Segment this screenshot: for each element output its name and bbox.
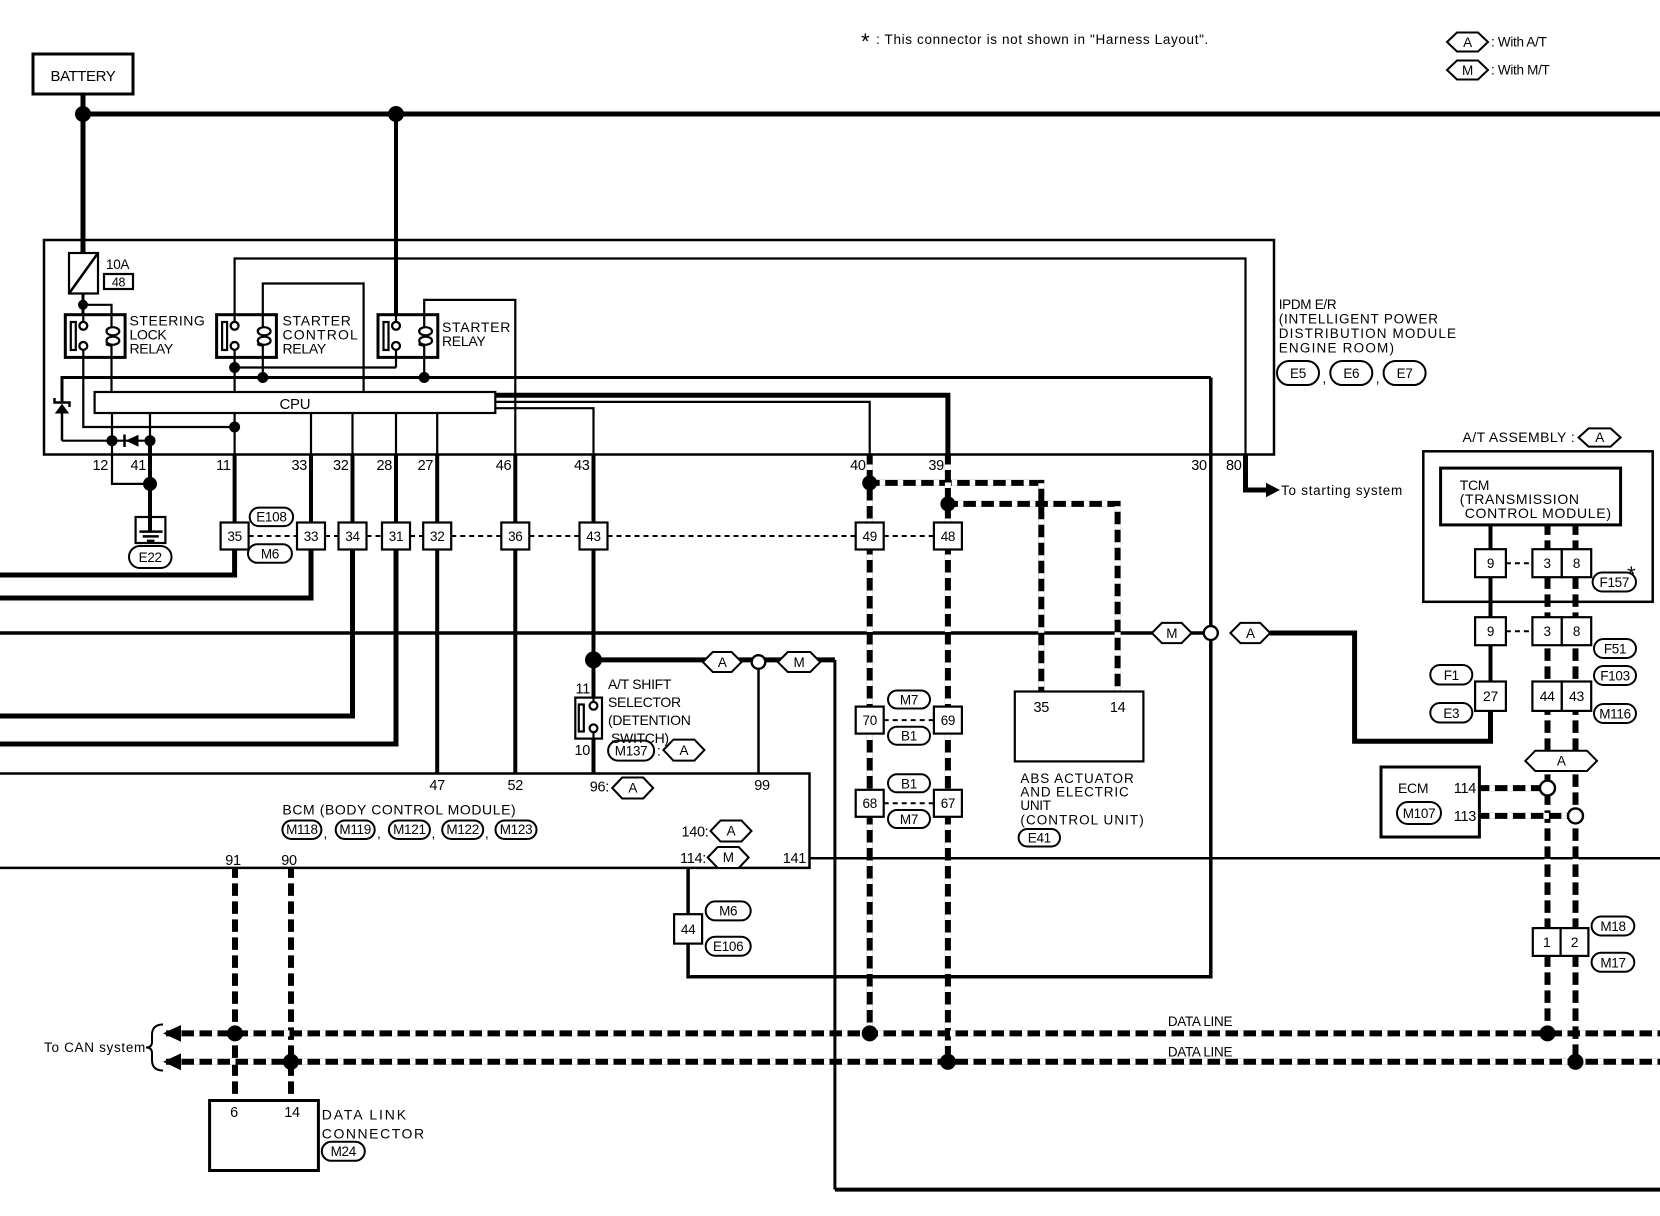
wire battery to fuse [81,94,86,253]
oval E5 [1277,361,1319,385]
junction dot pin 39 branch [940,496,955,511]
striped wire ECM pin 113 to joint [1479,813,1575,819]
steering lock relay [65,315,125,358]
hexagon A at BCM 140 [711,821,752,842]
junction dot battery 1 [75,106,91,122]
svg-text:SELECTOR: SELECTOR [608,694,681,710]
svg-text:*: * [1627,562,1636,587]
svg-text:M6: M6 [719,904,737,919]
wire IPDM pin 12 below box to ground node [112,455,150,484]
wire starter control relay contact bottom to CPU [234,350,236,392]
svg-text:M17: M17 [1600,955,1625,970]
svg-text:,: , [1323,371,1326,386]
svg-text:E22: E22 [139,550,162,565]
oval M24 [322,1142,365,1161]
svg-text:3: 3 [1543,556,1550,571]
svg-text:E3: E3 [1443,706,1459,721]
zener diode bottom wire to diode line [61,414,64,441]
wire CPU right output to IPDM pin 40 [495,402,869,455]
left bus wire from connector 33 [0,550,311,599]
svg-text:44: 44 [1540,688,1555,704]
wire IPDM pin 46 to connector 36 [513,455,517,523]
junction dot ground node [143,477,157,491]
CAN data line 2 striped [166,1059,1660,1065]
left bus wire from connector 34 [0,550,353,717]
A/T shift selector detention switch [575,698,602,739]
svg-text:M116: M116 [1599,707,1631,722]
diode between pin 12 and 41 nodes [125,435,139,448]
svg-text:,: , [432,826,435,841]
striped wire BCM pin 90 to data link connector pin 14 [288,868,294,1101]
svg-text:DATA LINE: DATA LINE [1168,1044,1233,1059]
wire fuse node to steering lock relay coil [83,305,112,327]
svg-text:M18: M18 [1600,919,1625,934]
svg-text:ENGINE ROOM): ENGINE ROOM) [1279,341,1394,356]
junction dot below fuse [78,300,88,310]
svg-text:RELAY: RELAY [283,341,327,357]
junction circle ECM 114 [1540,781,1555,796]
wire IPDM pin 33 to connector 33 [309,455,313,523]
wire steering lock relay contact bottom to pin 11 node [83,350,234,427]
svg-text:M137: M137 [615,744,648,759]
dashed links between connector row boxes [249,535,934,537]
svg-text:: With M/T: : With M/T [1491,63,1550,78]
svg-text:28: 28 [376,458,392,474]
thick A/T wire from hexagon A to connector 27 [1270,633,1491,741]
ground symbol E22 [136,517,166,543]
connector boxes 1 2 [1533,928,1561,956]
oval E22 [129,546,172,568]
oval M107 [1397,802,1441,824]
svg-text:27: 27 [418,458,434,474]
junction dot CAN2 BCM90 [283,1054,299,1070]
hexagon M on A/T M/T line [1152,623,1192,643]
wire relay output line to IPDM pin 30 with zener branch [62,378,1211,402]
svg-text:To starting system: To starting system [1281,483,1402,498]
hexagon A on A/T M/T line [1230,623,1270,643]
svg-text:M24: M24 [331,1144,357,1159]
M/T A/T branch line across page [0,631,1211,635]
svg-text:52: 52 [508,778,524,794]
IPDM E/R enclosure box [44,240,1274,455]
wire starter relay coil top to IPDM pin 46 [424,300,515,455]
svg-text:90: 90 [281,853,297,869]
oval M17 [1592,953,1635,972]
wire CPU pin to IPDM pin 32 [351,413,353,455]
ABS actuator and electric unit box [1015,692,1144,762]
oval F103 [1594,666,1636,685]
oval M7 top [888,691,930,709]
oval M18 [1592,917,1635,936]
hexagon A at BCM 96 [612,778,653,799]
junction dot CAN1 BCM91 [227,1025,243,1041]
svg-text:91: 91 [225,853,241,869]
striped wire IPDM pin 40 to CAN line 1 [867,455,873,1034]
svg-text:80: 80 [1226,458,1242,474]
svg-text:E108: E108 [256,510,286,525]
svg-text:M7: M7 [900,812,918,827]
oval F1 [1430,665,1472,685]
svg-text:48: 48 [112,276,126,290]
svg-text:M: M [1462,63,1473,78]
junction dot diode right [145,435,156,446]
oval F51 [1594,639,1636,658]
svg-text:E106: E106 [713,939,743,954]
svg-text:30: 30 [1191,458,1207,474]
ground wire stub inside ground box [148,517,152,532]
junction circle on detention branch [752,655,766,669]
svg-text:,: , [377,826,380,841]
wide hexagon A above ECM [1525,751,1597,771]
striped wire BCM pin 91 to data link connector pin 6 [232,868,238,1101]
striped wire IPDM pin 39 to CAN line 2 [945,455,951,1062]
wire starter control relay contact top to IPDM pin 80 [235,259,1246,455]
svg-text:10: 10 [574,743,590,759]
svg-text:IPDM E/R: IPDM E/R [1279,297,1337,312]
bottom wire to right edge [835,1188,1660,1192]
svg-text:F157: F157 [1600,575,1630,590]
TCM box [1441,468,1621,525]
junction dot CAN1 pin40 [862,1025,878,1041]
fuse 10A 48 [69,253,133,294]
svg-text:A: A [1557,754,1566,769]
svg-text:10A: 10A [106,257,129,272]
wire CPU right output to IPDM pin 43 [495,408,593,454]
svg-text:E5: E5 [1290,366,1306,381]
wire starter control relay coil top to CPU [263,284,364,393]
diode line pin12 to pin41 [62,440,150,442]
oval M116 [1594,704,1636,723]
wire CPU pin to IPDM pin 27 [436,413,438,455]
svg-text:: This connector is not shown: : This connector is not shown in "Harnes… [876,32,1208,47]
wire detention switch to BCM pin 96 [592,739,596,774]
hexagon M on detention branch [778,652,821,672]
striped branch pin 40 node to ABS pin 35 [870,483,1042,692]
wire connector 43 to detention switch node [592,550,596,698]
svg-text:M118: M118 [286,822,318,837]
wire battery bus down to starter relay contact [394,114,398,322]
svg-text:CONTROL MODULE): CONTROL MODULE) [1465,505,1611,521]
wire CPU pin to IPDM pin 28 [395,413,397,455]
zener diode in IPDM [55,398,70,414]
svg-text:11: 11 [576,682,591,698]
oval M137 [608,741,654,761]
BCM pin 141 wire to right edge [810,857,1660,860]
oval E6 [1330,361,1372,385]
CAN data line 1 striped [166,1030,1660,1036]
junction circle ECM 113 [1568,808,1583,823]
svg-text:32: 32 [333,458,349,474]
svg-text:F1: F1 [1444,668,1459,683]
svg-text:RELAY: RELAY [442,333,486,349]
svg-text:41: 41 [130,458,146,474]
wire junction circle to BCM pin 99 [757,662,760,774]
CAN line 1 arrow [163,1025,181,1042]
svg-text:12: 12 [92,458,108,474]
striped wire TCM pin 8 chain to CAN line 2 [1573,525,1579,1062]
wire IPDM pin 80 to starting system [1246,455,1268,491]
svg-text:M119: M119 [339,822,371,837]
wire IPDM pin 43 to connector 43 [592,455,596,523]
wire TCM pin 9 chain down through connectors [1489,525,1493,741]
svg-text:2: 2 [1571,934,1579,950]
svg-text:F51: F51 [1604,642,1626,657]
svg-text:BCM (BODY CONTROL MODULE): BCM (BODY CONTROL MODULE) [282,802,515,818]
junction dot diode left [107,435,118,446]
svg-text:114:: 114: [680,851,706,867]
svg-text:35: 35 [1034,700,1050,716]
svg-text:43: 43 [1569,688,1584,704]
svg-text:UNIT: UNIT [1020,798,1050,813]
svg-text:,: , [324,826,327,841]
svg-text:,: , [1376,371,1379,386]
oval M6 [248,544,292,563]
svg-text:M: M [794,655,805,670]
connector boxes 68 67 [856,790,884,817]
svg-text:33: 33 [291,458,307,474]
svg-text:(DETENTION: (DETENTION [608,712,691,728]
junction dot CAN1 TCM [1540,1025,1556,1041]
svg-text:M121: M121 [393,822,426,837]
svg-text:40: 40 [850,458,866,474]
battery B+ bus wire [83,112,1660,117]
wire CPU pin to IPDM pin 33 [310,413,312,455]
left bus wire from connector 35 [0,550,235,576]
connector boxes 27 44 43 [1475,682,1506,711]
junction dot detention branch [585,651,602,668]
wire CPU pin to IPDM pin 11 [234,413,236,455]
svg-text:49: 49 [862,529,876,544]
svg-text:A: A [1246,626,1255,641]
wire IPDM pin 27 to connector 32 [435,455,439,523]
svg-text:A: A [1595,430,1604,445]
svg-text:CONNECTOR: CONNECTOR [322,1126,424,1142]
junction circle on A/T M/T line [1204,626,1218,640]
arrow to starting system [1266,483,1280,497]
wire starter control relay coil bottom to relay output line [262,346,264,378]
data link connector box [210,1101,319,1171]
svg-text:33: 33 [304,529,318,544]
svg-text:RELAY: RELAY [130,341,174,357]
svg-text:14: 14 [284,1105,300,1121]
wire hexagon M line down to bottom edge [833,660,836,1190]
svg-text:39: 39 [928,458,944,474]
svg-text:A: A [1463,35,1472,50]
svg-text:A: A [680,743,689,758]
svg-text:E41: E41 [1028,831,1051,846]
svg-text:48: 48 [941,529,955,544]
svg-text:DATA LINK: DATA LINK [322,1107,407,1123]
svg-text:9: 9 [1487,624,1494,639]
redraw relay pin circles over stubs [79,322,400,350]
svg-text:67: 67 [941,796,955,811]
oval E3 [1430,703,1472,723]
connector boxes 49 48 [856,523,884,550]
wire CPU right output to IPDM pin 39 [495,395,948,454]
junction dot SCR coil node [257,372,268,383]
junction dot CAN2 TCM [1568,1054,1584,1070]
junction dot pin 40 branch [862,475,877,490]
svg-text:M122: M122 [446,822,479,837]
hexagon A on detention branch [703,652,742,672]
battery box [33,54,133,94]
svg-text:1: 1 [1543,934,1551,950]
svg-text:BATTERY: BATTERY [51,68,116,85]
junction dot CAN2 pin39 [940,1054,956,1070]
TCM connector boxes 9 3 8 row2 [1475,617,1506,645]
svg-text:B1: B1 [901,729,917,744]
svg-text:44: 44 [681,922,696,937]
oval B1 bottom [888,774,930,792]
junction dot SR coil node [419,372,430,383]
wire IPDM pin 11 to connector 35 and left bus [233,455,237,523]
wire connector 36 to BCM pin 52 [513,550,517,774]
svg-text:,: , [485,826,488,841]
svg-text:9: 9 [1487,556,1494,571]
ovals M118 M119 M121 M122 M123 [282,821,321,840]
svg-text:CPU: CPU [280,396,311,413]
detention branch line to hexagons [594,657,835,662]
svg-text:47: 47 [429,778,445,794]
svg-text:35: 35 [227,529,241,544]
BCM body control module box [0,774,810,868]
svg-text:A/T ASSEMBLY :: A/T ASSEMBLY : [1463,429,1575,445]
svg-text:43: 43 [586,529,600,544]
svg-text:F103: F103 [1600,669,1630,684]
oval E106 mid [706,937,751,956]
svg-text:43: 43 [574,458,590,474]
svg-text:69: 69 [941,713,955,728]
wire CPU pin to IPDM pin 41 [149,413,151,441]
wire steering lock relay coil bottom to CPU [110,346,112,393]
oval M6 mid [706,901,751,920]
svg-text:6: 6 [230,1105,238,1121]
svg-text:14: 14 [1110,700,1126,716]
wire CPU pin to IPDM pin 12 [111,413,113,455]
CPU box [95,392,496,413]
svg-text:46: 46 [496,458,512,474]
svg-text:A: A [718,655,727,670]
svg-text:70: 70 [862,713,876,728]
svg-text:M: M [723,850,734,865]
svg-text:3: 3 [1543,624,1550,639]
TCM connector boxes 9 3 8 row1 [1475,549,1506,577]
CAN line 2 arrow [163,1053,181,1070]
hexagon A at A/T assembly title [1579,428,1621,446]
svg-text:M107: M107 [1403,806,1436,821]
oval E41 [1019,829,1060,847]
svg-text:8: 8 [1573,556,1580,571]
striped branch pin 39 node to ABS pin 14 [948,504,1118,692]
wire starter relay coil bottom to relay output line [423,346,425,378]
wire IPDM pin 28 to connector 31 [394,455,398,523]
wire IPDM pin 41 to ground [148,455,152,518]
svg-text:A/T SHIFT: A/T SHIFT [608,676,672,692]
brace for CAN system [146,1025,163,1071]
hexagon M legend [1447,61,1488,80]
svg-text:M: M [1166,626,1177,641]
svg-text:To CAN system: To CAN system [44,1040,145,1055]
junction dot battery 2 [388,106,404,122]
oval E108 [250,508,293,526]
svg-text:: With A/T: : With A/T [1491,35,1547,50]
svg-text:*: * [861,29,870,54]
svg-text:(INTELLIGENT POWER: (INTELLIGENT POWER [1279,312,1439,327]
wire IPDM pin 32 to connector 34 [351,455,355,523]
wire connector 32 to BCM pin 47 [435,550,439,774]
svg-text:B1: B1 [901,776,917,791]
oval B1 top [888,727,930,745]
A/T assembly enclosure box [1423,451,1652,602]
oval F157 [1593,573,1636,592]
wire starter control relay contact node to starter relay contact [235,350,396,368]
svg-text:68: 68 [862,796,876,811]
svg-text:141: 141 [783,851,807,867]
svg-text:11: 11 [216,458,231,474]
junction dot SCR contact node [229,362,240,373]
svg-text:32: 32 [430,529,444,544]
svg-text:E7: E7 [1397,366,1413,381]
svg-text:99: 99 [754,778,770,794]
svg-text:A: A [628,781,637,796]
svg-text:113: 113 [1454,809,1476,825]
svg-text:31: 31 [389,529,403,544]
oval E7 [1384,361,1426,385]
starter relay [378,315,438,358]
svg-text:27: 27 [1483,688,1498,704]
svg-text:114: 114 [1454,781,1476,797]
svg-text:(CONTROL UNIT): (CONTROL UNIT) [1020,813,1143,828]
hexagon M at BCM 114 [708,847,749,868]
striped wire TCM pin 3 chain to CAN line 1 [1545,525,1551,1034]
svg-text:96:: 96: [590,780,609,796]
svg-text:140:: 140: [681,825,708,841]
svg-text:34: 34 [345,529,360,544]
connector boxes 70 69 [856,707,884,734]
connector row E108/M6 boxes 35 33 34 31 32 36 43 [221,523,608,550]
oval M7 bottom [888,810,930,828]
connector box 44 mid [674,914,702,943]
relay internal pin stubs [83,315,424,358]
wire IPDM pin 30 down and around to BCM connector 44 [688,378,1211,977]
hexagon A at M137 [663,740,704,761]
svg-text:E6: E6 [1343,366,1359,381]
wire fuse to steering lock relay contact [82,294,85,322]
svg-text:DISTRIBUTION MODULE: DISTRIBUTION MODULE [1279,326,1456,341]
svg-text:ECM: ECM [1398,780,1428,796]
starter control relay [217,315,277,358]
svg-text::: : [657,744,660,759]
svg-text:M7: M7 [900,693,918,708]
junction dot pin 11 line [229,422,240,433]
striped wire ECM pin 114 to joint [1479,785,1547,791]
svg-text:36: 36 [508,529,522,544]
hexagon A legend [1447,33,1488,52]
svg-text:8: 8 [1573,624,1580,639]
ECM box [1381,767,1479,837]
svg-text:DATA LINE: DATA LINE [1168,1014,1233,1029]
svg-text:M123: M123 [500,822,533,837]
svg-text:M6: M6 [261,546,279,561]
left bus wire from connector 31 [0,550,396,745]
svg-text:A: A [727,824,736,839]
